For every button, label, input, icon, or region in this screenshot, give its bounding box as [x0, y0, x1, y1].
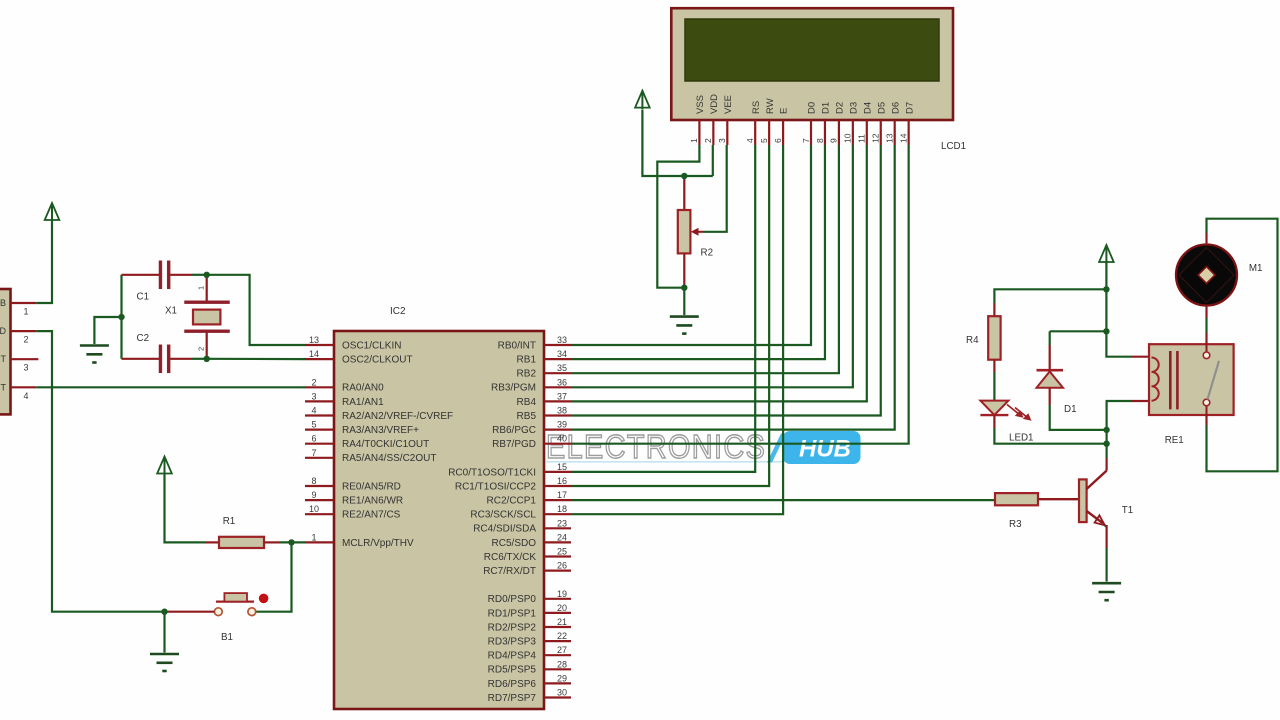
- svg-text:RB7/PGD: RB7/PGD: [492, 439, 536, 450]
- wire: C1/C2 left vertical: [120, 275, 122, 359]
- wire: R2 bottom to ground: [683, 288, 685, 315]
- wire: IC2 RC2 to R3: [571, 499, 995, 501]
- svg-text:2: 2: [703, 138, 713, 143]
- svg-text:4: 4: [745, 138, 755, 143]
- diode D1 flyback: [1037, 370, 1077, 415]
- watermark ELECTRONICS HUB logo: [546, 428, 861, 465]
- resistor R1: [219, 516, 264, 548]
- capacitor C1: [122, 261, 207, 303]
- svg-text:21: 21: [557, 617, 567, 627]
- svg-text:23: 23: [557, 518, 567, 528]
- junction node crystal caps ground tap: [118, 314, 124, 320]
- IC2 pin 18 RC3/SCK/SCL: [470, 504, 571, 520]
- svg-text:RD0/PSP0: RD0/PSP0: [488, 594, 537, 605]
- wire: X1 top / C1 to IC2 OSC1: [207, 275, 305, 345]
- IC2 pin 24 RC5/SDO: [492, 532, 571, 548]
- svg-text:2: 2: [197, 347, 206, 351]
- IC2 pin 1 MCLR/Vpp/THV: [305, 532, 414, 548]
- svg-text:RB2: RB2: [517, 369, 537, 380]
- svg-text:MCLR/Vpp/THV: MCLR/Vpp/THV: [342, 538, 414, 549]
- svg-text:29: 29: [557, 673, 567, 683]
- power symbol VCC near LCD: [635, 91, 650, 110]
- IC2 pin 9 RE1/AN6/WR: [305, 490, 403, 506]
- power symbol VCC near relay: [1099, 245, 1114, 264]
- LED LED1: [980, 401, 1033, 444]
- svg-text:RB4: RB4: [517, 397, 537, 408]
- power symbol VCC near connector: [45, 203, 60, 222]
- wire: LCD VSS to ground/R2 bottom: [657, 145, 699, 288]
- svg-text:D7: D7: [904, 102, 915, 114]
- svg-text:D1: D1: [821, 102, 832, 114]
- svg-text:D4: D4: [862, 102, 873, 114]
- svg-text:RA1/AN1: RA1/AN1: [342, 397, 384, 408]
- svg-text:T1: T1: [1122, 505, 1133, 516]
- IC2 pin 34 RB1: [517, 349, 571, 365]
- svg-text:2: 2: [311, 377, 316, 387]
- IC2 pin 3 RA1/AN1: [305, 391, 384, 407]
- junction node at C2 right: [204, 356, 210, 362]
- IC2 pin 23 RC4/SDI/SDA: [473, 518, 571, 534]
- svg-text:26: 26: [557, 561, 567, 571]
- IC2 pin 10 RE2/AN7/CS: [305, 504, 401, 520]
- svg-text:10: 10: [843, 133, 853, 143]
- svg-text:ELECTRONICS: ELECTRONICS: [546, 428, 766, 465]
- IC2 pin 33 RB0/INT: [498, 335, 571, 351]
- svg-text:24: 24: [557, 532, 567, 542]
- wire: motor top loop to relay switch NO: [1207, 219, 1278, 472]
- svg-text:RC2/CCP1: RC2/CCP1: [487, 496, 537, 507]
- wire: LCD D0 to IC2 RB0: [571, 145, 811, 345]
- LCD1 display module body: [671, 8, 966, 152]
- IC2 pin 2 RA0/AN0: [305, 377, 384, 393]
- svg-text:RA2/AN2/VREF-/CVREF: RA2/AN2/VREF-/CVREF: [342, 411, 453, 422]
- svg-text:33: 33: [557, 335, 567, 345]
- svg-text:14: 14: [898, 133, 908, 143]
- wire: X1 bottom / C2 to IC2 OSC2: [207, 358, 305, 361]
- junction node button/ground: [161, 609, 167, 615]
- svg-text:RD4/PSP4: RD4/PSP4: [488, 651, 537, 662]
- svg-text:36: 36: [557, 377, 567, 387]
- crystal X1: [165, 275, 230, 359]
- svg-text:RE1/AN6/WR: RE1/AN6/WR: [342, 496, 403, 507]
- IC2 pin 39 RB6/PGC: [492, 420, 571, 436]
- svg-text:11: 11: [857, 134, 867, 143]
- svg-text:RW: RW: [765, 98, 776, 114]
- svg-text:D1: D1: [1064, 404, 1077, 415]
- IC2 pin 40 RB7/PGD: [492, 434, 571, 450]
- svg-text:B: B: [0, 298, 6, 308]
- svg-text:OSC1/CLKIN: OSC1/CLKIN: [342, 340, 401, 351]
- connector J1 pin 4 stub: [1, 382, 37, 401]
- svg-text:VSS: VSS: [695, 95, 706, 114]
- svg-text:RE1: RE1: [1165, 435, 1184, 446]
- svg-text:12: 12: [871, 133, 881, 143]
- junction node R4 power tap: [1103, 286, 1109, 292]
- wire: motor bottom to relay common: [1205, 306, 1207, 345]
- svg-text:D0: D0: [807, 102, 818, 114]
- svg-text:17: 17: [557, 490, 567, 500]
- svg-text:9: 9: [829, 138, 839, 143]
- junction node D1 anode tap: [1103, 427, 1109, 433]
- svg-text:25: 25: [557, 547, 567, 557]
- LCD1 pin 8 D1: [815, 102, 832, 145]
- LCD1 pin 14 D7: [898, 102, 915, 145]
- wire: power to R1 left: [165, 473, 220, 542]
- svg-text:37: 37: [557, 391, 567, 401]
- svg-text:RB3/PGM: RB3/PGM: [491, 383, 536, 394]
- IC2 pin 30 RD7/PSP7: [488, 688, 571, 704]
- svg-text:E: E: [779, 108, 790, 114]
- svg-text:RB0/INT: RB0/INT: [498, 340, 536, 351]
- svg-text:R4: R4: [966, 335, 979, 346]
- wire: LCD E to IC2: [571, 145, 783, 514]
- wire: D1 anode to collector net: [1050, 388, 1107, 430]
- IC2 pin 8 RE0/AN5/RD: [305, 476, 401, 492]
- junction node D1 power tap: [1103, 328, 1109, 334]
- LCD1 pin 7 D0: [801, 102, 818, 145]
- svg-text:5: 5: [311, 420, 316, 430]
- transistor T1 NPN: [1038, 471, 1133, 526]
- svg-text:RS: RS: [751, 101, 762, 114]
- IC2 pin 17 RC2/CCP1: [487, 490, 571, 506]
- svg-text:22: 22: [557, 631, 567, 641]
- IC2 pin 7 RA5/AN4/SS/C2OUT: [305, 448, 436, 464]
- svg-text:RD2/PSP2: RD2/PSP2: [488, 622, 537, 633]
- IC2 pin 19 RD0/PSP0: [488, 589, 571, 605]
- IC2 pin 37 RB4: [517, 391, 571, 407]
- wire: R4 to LED1: [993, 360, 995, 401]
- IC2 pin 13 OSC1/CLKIN: [305, 335, 401, 351]
- svg-text:C2: C2: [137, 333, 150, 344]
- wire: power rail to LCD VDD and R2 top: [642, 110, 712, 176]
- svg-text:RE0/AN5/RD: RE0/AN5/RD: [342, 481, 401, 492]
- IC2 pin 16 RC1/T1OSI/CCP2: [455, 476, 571, 492]
- junction node at C1 right: [204, 272, 210, 278]
- IC2 pin 35 RB2: [517, 363, 571, 379]
- svg-text:1: 1: [197, 286, 206, 290]
- svg-text:30: 30: [557, 688, 567, 698]
- wire: LCD D6 to IC2 RB6: [571, 145, 895, 430]
- ground symbol near B1: [150, 654, 179, 671]
- svg-text:13: 13: [885, 133, 895, 143]
- ground symbol near R2: [670, 317, 699, 334]
- IC2 pin 29 RD6/PSP6: [488, 673, 571, 689]
- LCD1 pin 10 D3: [843, 102, 860, 145]
- svg-text:OSC2/CLKOUT: OSC2/CLKOUT: [342, 355, 413, 366]
- connector J1 pin 3 stub: [1, 354, 39, 373]
- LCD1 pin 5 RW: [759, 98, 776, 145]
- LCD1 pin 12 D5: [871, 102, 888, 145]
- wire: relay coil bottom to collector vertical: [1107, 401, 1149, 471]
- IC2 pin 5 RA3/AN3/VREF+: [305, 420, 419, 436]
- svg-text:1: 1: [689, 138, 699, 143]
- svg-text:8: 8: [815, 138, 825, 143]
- motor M1: [1176, 245, 1263, 306]
- svg-text:RB5: RB5: [517, 411, 537, 422]
- svg-text:RC1/T1OSI/CCP2: RC1/T1OSI/CCP2: [455, 481, 537, 492]
- svg-text:4: 4: [23, 391, 28, 401]
- svg-text:RC3/SCK/SCL: RC3/SCK/SCL: [470, 510, 536, 521]
- svg-text:38: 38: [557, 406, 567, 416]
- IC2 pin 21 RD2/PSP2: [488, 617, 571, 633]
- svg-text:D: D: [0, 326, 7, 336]
- svg-text:13: 13: [309, 335, 319, 345]
- wire: LCD VEE to R2 wiper: [691, 145, 727, 236]
- junction node R1/MCLR/B1: [288, 539, 294, 545]
- svg-text:LCD1: LCD1: [941, 141, 966, 152]
- IC2 pin 28 RD5/PSP5: [488, 659, 571, 675]
- svg-text:RD1/PSP1: RD1/PSP1: [488, 608, 537, 619]
- svg-text:RD5/PSP5: RD5/PSP5: [488, 665, 537, 676]
- wire: power tap to R4: [994, 289, 1106, 316]
- op IC2 PIC microcontroller body: [334, 306, 544, 709]
- wire: D1 cathode to power rail: [1050, 331, 1107, 369]
- IC2 pin 15 RC0/T1OSO/T1CKI: [448, 462, 571, 478]
- svg-text:18: 18: [557, 504, 567, 514]
- IC2 pin 6 RA4/T0CKI/C1OUT: [305, 434, 429, 450]
- resistor R3: [995, 493, 1038, 530]
- svg-text:VEE: VEE: [723, 95, 734, 114]
- wire: connector pin4 to IC2 RA0/AN0: [36, 386, 305, 388]
- svg-text:RA0/AN0: RA0/AN0: [342, 383, 384, 394]
- svg-text:27: 27: [557, 645, 567, 655]
- svg-text:RC7/RX/DT: RC7/RX/DT: [483, 566, 536, 577]
- LCD1 pin 11 D4: [857, 102, 874, 145]
- svg-text:RB6/PGC: RB6/PGC: [492, 425, 536, 436]
- LCD1 pin 1 VSS: [689, 95, 706, 145]
- LCD1 pin 4 RS: [745, 101, 762, 145]
- svg-text:T: T: [1, 382, 7, 392]
- svg-text:1: 1: [311, 532, 316, 542]
- svg-text:7: 7: [311, 448, 316, 458]
- IC2 pin 38 RB5: [517, 406, 571, 422]
- svg-text:RC5/SDO: RC5/SDO: [492, 538, 537, 549]
- LCD1 pin 13 D6: [885, 102, 902, 145]
- svg-text:RE2/AN7/CS: RE2/AN7/CS: [342, 510, 401, 521]
- svg-text:RD7/PSP7: RD7/PSP7: [488, 693, 537, 704]
- wire: T1 emitter to ground: [1105, 525, 1107, 582]
- IC2 pin 14 OSC2/CLKOUT: [305, 349, 413, 365]
- svg-text:RA3/AN3/VREF+: RA3/AN3/VREF+: [342, 425, 419, 436]
- wire: LCD D2 to IC2 RB2: [571, 145, 839, 373]
- svg-text:3: 3: [23, 363, 28, 373]
- connector J1 pin 2 stub: [0, 326, 36, 345]
- connector J1 (cut off at left edge): [0, 289, 11, 414]
- svg-text:15: 15: [557, 462, 567, 472]
- wire: connector pin1 to power rail: [36, 221, 52, 303]
- wire: button ground branch: [163, 612, 165, 653]
- junction node VDD/R2: [681, 173, 687, 179]
- IC2 pin 20 RD1/PSP1: [488, 603, 571, 619]
- svg-text:10: 10: [309, 504, 319, 514]
- svg-text:RB1: RB1: [517, 355, 537, 366]
- wire: LCD RS to IC2: [571, 145, 755, 472]
- LCD1 pin 3 VEE: [717, 95, 734, 145]
- svg-text:VDD: VDD: [709, 94, 720, 114]
- svg-text:RC4/SDI/SDA: RC4/SDI/SDA: [473, 524, 536, 535]
- svg-text:R1: R1: [223, 516, 236, 527]
- svg-text:RA5/AN4/SS/C2OUT: RA5/AN4/SS/C2OUT: [342, 453, 436, 464]
- LCD1 pin 2 VDD: [703, 94, 720, 145]
- svg-text:34: 34: [557, 349, 567, 359]
- svg-text:4: 4: [311, 406, 316, 416]
- svg-text:RD6/PSP6: RD6/PSP6: [488, 679, 537, 690]
- svg-text:HUB: HUB: [799, 436, 851, 463]
- wire: LED1 cathode to transistor collector net: [994, 415, 1106, 444]
- svg-text:3: 3: [311, 391, 316, 401]
- svg-text:T: T: [1, 354, 7, 364]
- svg-text:39: 39: [557, 420, 567, 430]
- svg-text:C1: C1: [137, 292, 150, 303]
- svg-text:B1: B1: [221, 632, 233, 643]
- wire: LCD D3 to IC2 RB3: [571, 145, 853, 387]
- wire: R1 right to IC2 MCLR: [264, 541, 305, 543]
- ground symbol near T1: [1092, 583, 1121, 600]
- wire: connector pin2 down to button net: [36, 331, 164, 612]
- push button B1: [165, 593, 269, 643]
- capacitor C2: [122, 333, 207, 373]
- svg-text:40: 40: [557, 434, 567, 444]
- resistor R4: [966, 316, 1001, 360]
- svg-text:M1: M1: [1249, 263, 1263, 274]
- svg-text:IC2: IC2: [390, 306, 406, 317]
- svg-text:14: 14: [309, 349, 319, 359]
- IC2 pin 4 RA2/AN2/VREF-/CVREF: [305, 406, 453, 422]
- svg-text:RD3/PSP3: RD3/PSP3: [488, 637, 537, 648]
- svg-text:6: 6: [773, 138, 783, 143]
- wire: ground tap to crystal caps: [94, 317, 121, 344]
- junction node LED cathode tap: [1103, 441, 1109, 447]
- svg-text:20: 20: [557, 603, 567, 613]
- svg-text:R3: R3: [1009, 519, 1022, 530]
- svg-text:8: 8: [311, 476, 316, 486]
- IC2 pin 22 RD3/PSP3: [488, 631, 571, 647]
- svg-text:LED1: LED1: [1009, 433, 1034, 444]
- svg-text:RC6/TX/CK: RC6/TX/CK: [484, 552, 537, 563]
- IC2 pin 27 RD4/PSP4: [488, 645, 571, 661]
- junction node VSS/R2 bottom: [681, 285, 687, 291]
- svg-text:5: 5: [759, 138, 769, 143]
- wire: LCD D1 to IC2 RB1: [571, 145, 825, 359]
- svg-text:D3: D3: [848, 102, 859, 114]
- svg-text:3: 3: [717, 138, 727, 143]
- svg-text:RA4/T0CKI/C1OUT: RA4/T0CKI/C1OUT: [342, 439, 429, 450]
- svg-text:D5: D5: [876, 102, 887, 114]
- potentiometer R2: [678, 176, 713, 288]
- ground symbol near crystal: [80, 346, 109, 363]
- svg-text:19: 19: [557, 589, 567, 599]
- IC2 pin 25 RC6/TX/CK: [484, 547, 571, 563]
- svg-text:2: 2: [23, 335, 28, 345]
- wire: LCD D4 to IC2 RB4: [571, 145, 867, 401]
- wire: power rail down to relay coil top: [1106, 262, 1149, 357]
- power symbol VCC near R1: [157, 457, 172, 476]
- svg-text:R2: R2: [701, 248, 714, 259]
- svg-text:X1: X1: [165, 306, 177, 317]
- svg-text:7: 7: [801, 138, 811, 143]
- svg-text:35: 35: [557, 363, 567, 373]
- svg-text:28: 28: [557, 659, 567, 669]
- LCD1 pin 6 E: [773, 108, 790, 145]
- svg-text:6: 6: [311, 434, 316, 444]
- IC2 pin 36 RB3/PGM: [491, 377, 571, 393]
- LCD1 pin 9 D2: [829, 102, 846, 145]
- wire: MCLR junction down to button B1: [256, 542, 292, 611]
- IC2 pin 26 RC7/RX/DT: [483, 561, 571, 577]
- relay RE1: [1149, 344, 1234, 446]
- svg-text:9: 9: [311, 490, 316, 500]
- svg-text:RC0/T1OSO/T1CKI: RC0/T1OSO/T1CKI: [448, 467, 536, 478]
- svg-text:16: 16: [557, 476, 567, 486]
- wire: LCD D7 to IC2 RB7: [571, 145, 909, 444]
- svg-text:D6: D6: [890, 102, 901, 114]
- wire: LCD RW to IC2: [571, 145, 769, 486]
- svg-text:D2: D2: [835, 102, 846, 114]
- svg-text:1: 1: [23, 307, 28, 317]
- connector J1 pin 1 stub: [0, 298, 36, 317]
- wire: LCD D5 to IC2 RB5: [571, 145, 881, 416]
